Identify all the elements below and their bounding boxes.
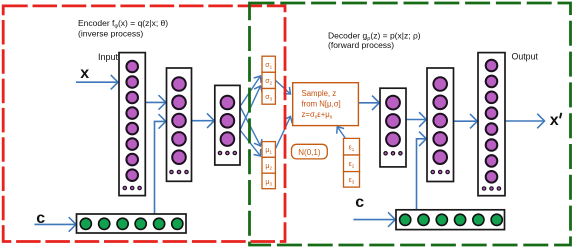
input layer rect bbox=[119, 53, 145, 196]
decoder layer 2 ellipsis dots bbox=[431, 170, 449, 173]
mu boxes bbox=[262, 142, 275, 189]
svg-text:Input: Input bbox=[98, 52, 119, 62]
red dashed encoder boundary bbox=[3, 6, 285, 242]
conditional row neurons left bbox=[80, 218, 183, 229]
wire bottleneck to mu boxes bbox=[240, 107, 261, 147]
x input arrow bbox=[76, 81, 118, 83]
svg-text:x: x bbox=[550, 112, 559, 129]
wire hidden layer 1 to bottleneck bbox=[192, 120, 214, 122]
decoder layer 2 neurons bbox=[433, 77, 447, 164]
conditional row rect right bbox=[396, 210, 505, 230]
output layer rect bbox=[478, 53, 505, 196]
output layer ellipsis dots bbox=[482, 187, 500, 190]
wire decoder layer 2 to output layer bbox=[454, 120, 478, 122]
wire mu to sample box bbox=[276, 117, 291, 149]
decoder layer 2 rect bbox=[427, 68, 454, 182]
decoder layer 1 rect bbox=[380, 88, 406, 167]
green dashed decoder boundary bbox=[250, 3, 571, 245]
wire epsilon to sample box bbox=[337, 127, 345, 138]
svg-text:(forward process): (forward process) bbox=[328, 40, 394, 50]
c arrow right bbox=[353, 219, 395, 221]
input layer neurons bbox=[126, 61, 138, 181]
svg-text:Output: Output bbox=[512, 52, 539, 62]
hidden layer 1 rect bbox=[167, 68, 192, 181]
decoder layer 1 neurons bbox=[386, 96, 400, 147]
decoder layer 1 ellipsis dots bbox=[384, 152, 402, 155]
epsilon boxes bbox=[344, 138, 360, 187]
sigma boxes bbox=[262, 56, 275, 104]
svg-text:(inverse process): (inverse process) bbox=[78, 29, 143, 39]
output layer neurons bbox=[486, 60, 498, 183]
svg-text:z=σxε+μx: z=σxε+μx bbox=[302, 110, 333, 121]
c arrow left bbox=[35, 223, 77, 225]
wire input layer to hidden layer 1 bbox=[145, 101, 165, 103]
epsilon labels bbox=[349, 145, 355, 185]
wire conditional elbow into decoder layer 2 bbox=[417, 139, 427, 210]
bottleneck ellipsis dots bbox=[218, 151, 236, 154]
hidden layer 1 ellipsis dots bbox=[170, 170, 188, 173]
bottleneck neurons bbox=[221, 96, 235, 146]
conditional row neurons right bbox=[400, 214, 503, 225]
svg-text:x: x bbox=[80, 65, 89, 82]
bottleneck layer rect bbox=[215, 85, 240, 165]
svg-text:c: c bbox=[355, 194, 364, 211]
x' output arrow bbox=[505, 120, 544, 122]
input layer ellipsis dots bbox=[123, 186, 141, 189]
wire bottleneck to sigma boxes bbox=[240, 76, 261, 107]
mu labels bbox=[265, 147, 272, 187]
wire sigma to sample box bbox=[276, 81, 291, 95]
sample box bbox=[293, 83, 359, 126]
wire decoder layer 1 to decoder layer 2 bbox=[406, 119, 426, 121]
svg-text:from N[μ,σ]: from N[μ,σ] bbox=[302, 100, 341, 109]
hidden layer 1 neurons bbox=[172, 77, 186, 164]
svg-text:N(0,1): N(0,1) bbox=[298, 148, 321, 157]
svg-text:Sample, z: Sample, z bbox=[302, 89, 337, 98]
wire sample box to decoder layer 1 bbox=[359, 102, 380, 104]
wire conditional elbow into hidden layer 1 bbox=[155, 121, 166, 214]
N(0,1) box bbox=[292, 144, 328, 159]
conditional row rect left bbox=[77, 214, 187, 233]
sample box text bbox=[302, 89, 341, 121]
sigma labels bbox=[265, 62, 272, 102]
